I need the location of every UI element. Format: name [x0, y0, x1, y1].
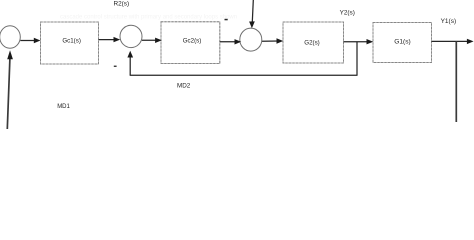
svg-text:Gc2(s): Gc2(s) — [183, 38, 202, 45]
svg-text:G1(s): G1(s) — [394, 39, 410, 46]
svg-text:MD2: MD2 — [177, 83, 191, 90]
svg-text:cascade control structure with: cascade control structure with primary a… — [60, 15, 237, 21]
svg-text:Y2(s): Y2(s) — [340, 10, 355, 17]
svg-text:G2(s): G2(s) — [304, 39, 319, 46]
svg-text:Y1(s): Y1(s) — [441, 18, 457, 25]
svg-text:R2(s): R2(s) — [114, 1, 130, 8]
svg-text:MD1: MD1 — [57, 104, 70, 110]
svg-text:Gc1(s): Gc1(s) — [62, 37, 81, 44]
